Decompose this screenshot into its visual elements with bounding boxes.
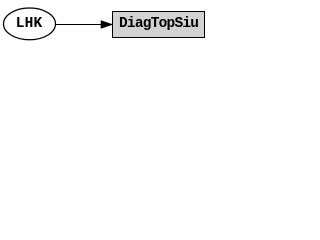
svg-text:LHK: LHK bbox=[16, 16, 43, 32]
svg-text:DiagTopSiu: DiagTopSiu bbox=[119, 16, 199, 32]
